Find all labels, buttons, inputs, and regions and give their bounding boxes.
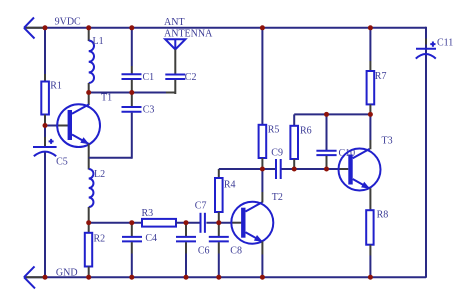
svg-text:C1: C1 — [143, 72, 155, 83]
svg-text:C9: C9 — [271, 148, 283, 159]
svg-text:C3: C3 — [143, 104, 155, 115]
svg-text:ANT: ANT — [164, 17, 185, 28]
svg-text:R8: R8 — [377, 210, 389, 221]
svg-text:L1: L1 — [93, 36, 104, 47]
svg-text:C2: C2 — [185, 72, 197, 83]
svg-text:R4: R4 — [224, 179, 236, 190]
svg-text:R1: R1 — [50, 81, 62, 92]
svg-text:T1: T1 — [101, 92, 112, 103]
svg-text:R5: R5 — [268, 125, 280, 136]
svg-text:C6: C6 — [198, 245, 210, 256]
svg-text:C7: C7 — [195, 200, 207, 211]
svg-text:C4: C4 — [145, 233, 157, 244]
svg-text:ANTENNA: ANTENNA — [164, 29, 213, 40]
svg-text:C11: C11 — [437, 38, 453, 49]
svg-text:L2: L2 — [94, 169, 105, 180]
svg-text:R3: R3 — [142, 208, 154, 219]
svg-text:R7: R7 — [375, 71, 387, 82]
svg-text:C8: C8 — [230, 245, 242, 256]
svg-text:R6: R6 — [300, 126, 312, 137]
svg-text:R2: R2 — [94, 234, 106, 245]
svg-text:GND: GND — [56, 268, 78, 279]
svg-text:9VDC: 9VDC — [55, 17, 81, 28]
svg-text:T3: T3 — [382, 136, 393, 147]
svg-text:C5: C5 — [56, 156, 68, 167]
svg-text:T2: T2 — [272, 192, 283, 203]
